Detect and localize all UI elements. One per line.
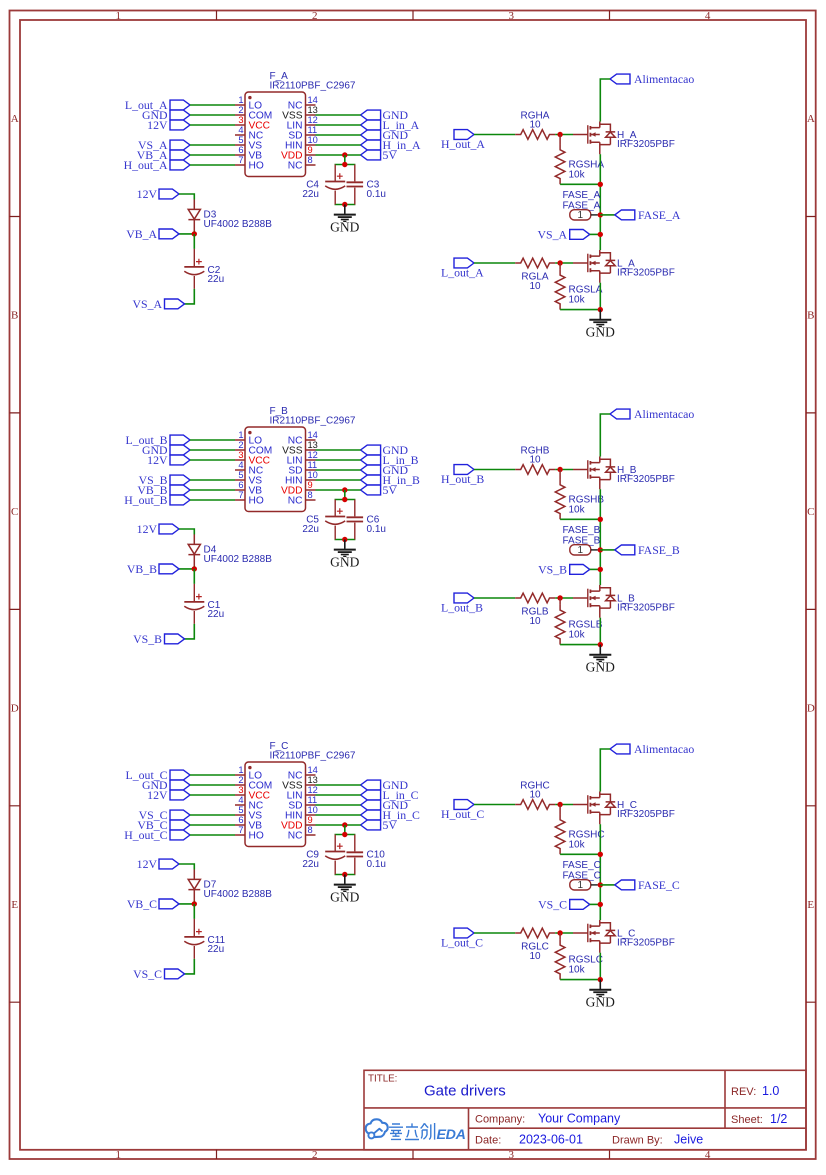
svg-text:VB_B: VB_B bbox=[127, 562, 157, 576]
port VS_B right bbox=[538, 562, 590, 576]
svg-text:8: 8 bbox=[308, 155, 313, 165]
wire bbox=[335, 155, 356, 205]
wire bbox=[190, 489, 235, 491]
svg-text:4: 4 bbox=[238, 460, 243, 470]
svg-text:Company:: Company: bbox=[475, 1114, 525, 1126]
ground bbox=[586, 310, 615, 340]
svg-text:10: 10 bbox=[308, 805, 318, 815]
svg-text:6: 6 bbox=[238, 480, 243, 490]
svg-text:Your Company: Your Company bbox=[538, 1112, 621, 1126]
svg-text:Sheet:: Sheet: bbox=[731, 1114, 763, 1126]
svg-text:12V: 12V bbox=[137, 187, 158, 201]
frame column numbers bbox=[115, 10, 710, 1161]
port VS_B bbox=[133, 632, 184, 646]
wire bbox=[190, 449, 235, 451]
wire bbox=[555, 469, 573, 471]
svg-text:VS_B: VS_B bbox=[133, 632, 162, 646]
junction bbox=[598, 212, 603, 217]
port L_out_C bbox=[441, 928, 483, 950]
svg-text:8: 8 bbox=[308, 490, 313, 500]
op-amp F_A IR2110PBF_C2967 bbox=[245, 71, 356, 177]
wire bbox=[555, 262, 573, 264]
svg-text:IRF3205PBF: IRF3205PBF bbox=[617, 937, 675, 948]
port VB_A bbox=[126, 227, 179, 241]
capacitor C10 0.1u bbox=[347, 835, 386, 875]
svg-text:10k: 10k bbox=[569, 170, 586, 181]
junction bbox=[598, 182, 603, 187]
svg-text:10: 10 bbox=[308, 470, 318, 480]
port VB_C bbox=[137, 818, 190, 832]
svg-text:1.0: 1.0 bbox=[762, 1084, 779, 1098]
port VS_B bbox=[139, 473, 190, 487]
svg-text:1: 1 bbox=[578, 210, 584, 221]
port L_in_A bbox=[361, 118, 420, 132]
svg-text:VS_C: VS_C bbox=[133, 967, 162, 981]
wire bbox=[335, 825, 356, 875]
svg-text:1: 1 bbox=[115, 1149, 121, 1161]
port 12V bbox=[147, 118, 190, 132]
svg-text:E: E bbox=[807, 899, 814, 911]
wire bbox=[316, 469, 361, 471]
junction bbox=[342, 872, 347, 877]
wire bbox=[193, 569, 195, 584]
wire bbox=[474, 262, 515, 264]
ground bbox=[330, 205, 359, 235]
svg-text:4: 4 bbox=[238, 125, 243, 135]
junction bbox=[192, 566, 197, 571]
port FASE_C bbox=[615, 878, 680, 892]
svg-text:2: 2 bbox=[312, 10, 318, 22]
svg-text:3: 3 bbox=[238, 115, 243, 125]
svg-text:10: 10 bbox=[529, 951, 541, 962]
svg-text:IRF3205PBF: IRF3205PBF bbox=[617, 267, 675, 278]
wire bbox=[590, 233, 601, 235]
section C bbox=[124, 741, 694, 1010]
svg-text:14: 14 bbox=[308, 95, 318, 105]
svg-text:8: 8 bbox=[308, 825, 313, 835]
resistor RGSLB 10k bbox=[555, 598, 602, 645]
wire bbox=[190, 814, 235, 816]
svg-text:IRF3205PBF: IRF3205PBF bbox=[617, 474, 675, 485]
capacitor C3 0.1u bbox=[347, 165, 386, 205]
netport 1 bbox=[570, 210, 598, 222]
svg-text:2023-06-01: 2023-06-01 bbox=[519, 1133, 583, 1147]
svg-text:2: 2 bbox=[238, 440, 243, 450]
date row bbox=[475, 1133, 703, 1147]
wire bbox=[560, 518, 600, 520]
ground bbox=[586, 645, 615, 675]
wire bbox=[474, 134, 515, 136]
wire bbox=[555, 932, 573, 934]
svg-text:5V: 5V bbox=[383, 148, 398, 162]
resistor RGSHB 10k bbox=[555, 470, 604, 520]
junction VDD node bbox=[342, 822, 347, 827]
wire bbox=[560, 183, 600, 185]
resistor RGHA 10 bbox=[515, 110, 555, 139]
svg-text:FASE_A: FASE_A bbox=[638, 208, 681, 222]
diode D4 UF4002 bbox=[188, 534, 272, 566]
svg-text:B: B bbox=[807, 310, 814, 322]
wire bbox=[179, 231, 194, 234]
wire bbox=[600, 749, 610, 792]
port H_out_B bbox=[441, 465, 484, 487]
svg-text:0.1u: 0.1u bbox=[367, 859, 386, 870]
wire bbox=[316, 814, 361, 816]
junction bbox=[557, 595, 562, 600]
wire bbox=[560, 644, 600, 646]
svg-text:IRF3205PBF: IRF3205PBF bbox=[617, 602, 675, 613]
op-amp F_C IR2110PBF_C2967 bbox=[245, 741, 356, 847]
port VB_B bbox=[127, 562, 179, 576]
capacitor C2 22u bbox=[184, 249, 224, 289]
wire bbox=[560, 979, 600, 981]
svg-text:12V: 12V bbox=[147, 788, 168, 802]
port GND bbox=[142, 108, 190, 122]
svg-text:5V: 5V bbox=[383, 818, 398, 832]
port GND bbox=[142, 443, 190, 457]
svg-text:H_out_B: H_out_B bbox=[124, 493, 167, 507]
svg-text:4: 4 bbox=[238, 795, 243, 805]
svg-text:5: 5 bbox=[238, 470, 243, 480]
wire bbox=[179, 529, 194, 535]
svg-text:IR2110PBF_C2967: IR2110PBF_C2967 bbox=[270, 81, 356, 92]
svg-text:EDA: EDA bbox=[437, 1127, 466, 1143]
svg-text:13: 13 bbox=[308, 775, 318, 785]
svg-text:E: E bbox=[11, 899, 18, 911]
svg-text:12V: 12V bbox=[137, 857, 158, 871]
port L_out_C bbox=[126, 768, 190, 782]
svg-text:Alimentacao: Alimentacao bbox=[634, 407, 694, 421]
wire bbox=[316, 794, 361, 796]
capacitor C5 22u bbox=[302, 500, 345, 540]
port L_out_A bbox=[125, 98, 190, 112]
svg-text:22u: 22u bbox=[208, 274, 225, 285]
port VS_C right bbox=[538, 897, 590, 911]
junction bbox=[557, 132, 562, 137]
svg-text:3: 3 bbox=[508, 1149, 514, 1161]
capacitor C11 22u bbox=[184, 919, 225, 959]
port H_out_A bbox=[124, 158, 190, 172]
port 12V bbox=[137, 857, 179, 871]
port Alimentacao bbox=[610, 742, 694, 756]
svg-text:14: 14 bbox=[308, 430, 318, 440]
wire bbox=[179, 864, 194, 870]
title block bbox=[364, 1070, 806, 1150]
svg-text:C: C bbox=[807, 506, 814, 518]
wire bbox=[185, 959, 195, 974]
svg-text:2: 2 bbox=[238, 105, 243, 115]
port Alimentacao bbox=[610, 407, 694, 421]
port 12V bbox=[147, 788, 190, 802]
netport 1 bbox=[570, 545, 598, 557]
svg-text:7: 7 bbox=[238, 155, 243, 165]
capacitor C1 22u bbox=[184, 584, 224, 624]
port FASE_B bbox=[615, 543, 680, 557]
svg-text:12: 12 bbox=[308, 785, 318, 795]
svg-text:12: 12 bbox=[308, 115, 318, 125]
port L_out_B bbox=[126, 433, 190, 447]
svg-text:L_out_C: L_out_C bbox=[441, 936, 483, 950]
svg-text:9: 9 bbox=[308, 815, 313, 825]
wire bbox=[190, 124, 235, 126]
wire bbox=[190, 154, 235, 156]
junction bbox=[557, 467, 562, 472]
svg-text:H_out_A: H_out_A bbox=[441, 137, 485, 151]
wire bbox=[190, 144, 235, 146]
wire bbox=[316, 459, 361, 461]
port GND bbox=[361, 108, 409, 122]
wire bbox=[316, 449, 361, 451]
wire bbox=[474, 597, 515, 599]
resistor RGLC 10 bbox=[515, 928, 555, 962]
port H_out_C bbox=[441, 800, 484, 822]
wire bbox=[190, 439, 235, 441]
svg-text:GND: GND bbox=[586, 325, 615, 340]
wire bbox=[555, 134, 573, 136]
junction bbox=[598, 852, 603, 857]
svg-text:H_out_B: H_out_B bbox=[441, 472, 484, 486]
svg-text:11: 11 bbox=[308, 460, 318, 470]
wire bbox=[190, 164, 235, 166]
svg-text:C: C bbox=[11, 506, 18, 518]
wire bbox=[600, 884, 615, 886]
capacitor C4 22u bbox=[302, 165, 345, 205]
svg-text:7: 7 bbox=[238, 490, 243, 500]
svg-text:6: 6 bbox=[238, 145, 243, 155]
svg-text:1: 1 bbox=[238, 430, 243, 440]
svg-text:UF4002 B288B: UF4002 B288B bbox=[204, 219, 273, 230]
svg-text:22u: 22u bbox=[208, 609, 225, 620]
wire bbox=[474, 804, 515, 806]
svg-text:VB_A: VB_A bbox=[126, 227, 157, 241]
svg-text:GND: GND bbox=[330, 890, 359, 905]
svg-text:GND: GND bbox=[330, 555, 359, 570]
transistor H_C IRF3205PBF bbox=[573, 792, 675, 825]
svg-text:FASE_B: FASE_B bbox=[563, 525, 601, 536]
svg-text:Gate drivers: Gate drivers bbox=[424, 1082, 506, 1099]
junction VDD node bbox=[342, 487, 347, 492]
wire bbox=[590, 568, 601, 570]
wire bbox=[600, 549, 615, 551]
junction bbox=[598, 642, 603, 647]
wire bbox=[335, 490, 356, 540]
transistor L_B IRF3205PBF bbox=[573, 585, 675, 618]
svg-text:5: 5 bbox=[238, 805, 243, 815]
wire bbox=[190, 479, 235, 481]
svg-text:13: 13 bbox=[308, 440, 318, 450]
svg-text:10: 10 bbox=[308, 135, 318, 145]
port VB_A bbox=[137, 148, 190, 162]
svg-text:Drawn By:: Drawn By: bbox=[612, 1135, 663, 1147]
port L_out_B bbox=[441, 593, 483, 615]
net FASE_B labels bbox=[563, 525, 601, 547]
wire bbox=[599, 283, 601, 310]
svg-text:22u: 22u bbox=[302, 859, 319, 870]
wire bbox=[185, 624, 195, 639]
wire bbox=[560, 853, 600, 855]
junction bbox=[598, 567, 603, 572]
svg-text:10: 10 bbox=[529, 790, 541, 801]
wire bbox=[316, 824, 361, 826]
wire bbox=[600, 214, 615, 216]
ground bbox=[586, 980, 615, 1010]
svg-text:Jeive: Jeive bbox=[674, 1133, 703, 1147]
resistor RGHC 10 bbox=[515, 780, 555, 809]
port 12V bbox=[137, 522, 179, 536]
svg-text:NC: NC bbox=[288, 496, 303, 507]
svg-text:D: D bbox=[11, 703, 19, 715]
IC pin numbers and names bbox=[238, 765, 318, 841]
wire bbox=[316, 134, 361, 136]
port 12V bbox=[137, 187, 179, 201]
port VS_A bbox=[138, 138, 190, 152]
wire bbox=[179, 194, 194, 200]
ground bbox=[330, 540, 359, 570]
wire bbox=[179, 901, 194, 904]
rev bbox=[731, 1084, 779, 1098]
wire bbox=[316, 784, 361, 786]
svg-text:HO: HO bbox=[249, 496, 264, 507]
junction bbox=[598, 517, 603, 522]
svg-text:D: D bbox=[807, 703, 815, 715]
junction bbox=[598, 902, 603, 907]
svg-text:10k: 10k bbox=[569, 630, 586, 641]
svg-text:REV:: REV: bbox=[731, 1086, 756, 1098]
IC left pins 1-7 bbox=[235, 105, 316, 165]
resistor RGSHA 10k bbox=[555, 135, 604, 185]
wire bbox=[600, 414, 610, 457]
svg-text:2: 2 bbox=[238, 775, 243, 785]
junction bbox=[598, 977, 603, 982]
svg-text:TITLE:: TITLE: bbox=[368, 1073, 397, 1084]
junction bbox=[192, 231, 197, 236]
logo CJK text approximation bbox=[389, 1123, 435, 1140]
transistor L_C IRF3205PBF bbox=[573, 920, 675, 953]
resistor RGLB 10 bbox=[515, 593, 555, 627]
op-amp F_B IR2110PBF_C2967 bbox=[245, 406, 356, 512]
port VS_A right bbox=[538, 227, 590, 241]
wire bbox=[190, 104, 235, 106]
svg-text:14: 14 bbox=[308, 765, 318, 775]
wire bbox=[190, 459, 235, 461]
svg-text:A: A bbox=[11, 113, 19, 125]
title text bbox=[368, 1073, 506, 1099]
port GND bbox=[361, 443, 409, 457]
port FASE_A bbox=[615, 208, 681, 222]
svg-text:VB_C: VB_C bbox=[127, 897, 157, 911]
svg-text:1: 1 bbox=[238, 95, 243, 105]
svg-text:10k: 10k bbox=[569, 505, 586, 516]
svg-text:10: 10 bbox=[529, 455, 541, 466]
svg-text:9: 9 bbox=[308, 145, 313, 155]
transistor L_A IRF3205PBF bbox=[573, 250, 675, 283]
svg-text:3: 3 bbox=[508, 10, 514, 22]
svg-text:IR2110PBF_C2967: IR2110PBF_C2967 bbox=[270, 751, 356, 762]
svg-text:L_out_A: L_out_A bbox=[441, 266, 484, 280]
svg-text:GND: GND bbox=[586, 995, 615, 1010]
junction bbox=[342, 537, 347, 542]
svg-text:0.1u: 0.1u bbox=[367, 189, 386, 200]
port VS_C bbox=[133, 967, 184, 981]
svg-text:IRF3205PBF: IRF3205PBF bbox=[617, 139, 675, 150]
ground bbox=[330, 875, 359, 905]
svg-text:1: 1 bbox=[115, 10, 121, 22]
junction bbox=[192, 901, 197, 906]
port H_out_B bbox=[124, 493, 190, 507]
svg-text:13: 13 bbox=[308, 105, 318, 115]
wire bbox=[193, 234, 195, 249]
junction bbox=[557, 802, 562, 807]
port 5V bbox=[361, 483, 398, 497]
svg-text:10: 10 bbox=[529, 120, 541, 131]
junction VDD node bbox=[342, 152, 347, 157]
port 5V bbox=[361, 818, 398, 832]
svg-text:10k: 10k bbox=[569, 965, 586, 976]
svg-text:HO: HO bbox=[249, 161, 264, 172]
wire bbox=[599, 618, 601, 645]
capacitor C6 0.1u bbox=[347, 500, 386, 540]
wire bbox=[599, 953, 601, 980]
wire bbox=[555, 804, 573, 806]
svg-text:12V: 12V bbox=[147, 118, 168, 132]
svg-text:NC: NC bbox=[288, 161, 303, 172]
wire bbox=[190, 784, 235, 786]
svg-text:Alimentacao: Alimentacao bbox=[634, 72, 694, 86]
svg-text:VS_A: VS_A bbox=[538, 227, 568, 241]
svg-text:12V: 12V bbox=[137, 522, 158, 536]
svg-text:FASE_A: FASE_A bbox=[563, 190, 601, 201]
junction bbox=[342, 202, 347, 207]
svg-text:B: B bbox=[11, 310, 18, 322]
port VB_C bbox=[127, 897, 179, 911]
diode D7 UF4002 bbox=[188, 869, 272, 901]
junction bbox=[598, 232, 603, 237]
IC pin numbers and names bbox=[238, 95, 318, 171]
diode D3 UF4002 bbox=[188, 199, 272, 231]
svg-text:HO: HO bbox=[249, 831, 264, 842]
wire bbox=[190, 114, 235, 116]
port VS_C bbox=[139, 808, 190, 822]
svg-text:5V: 5V bbox=[383, 483, 398, 497]
junction bbox=[342, 497, 347, 502]
junction bbox=[598, 882, 603, 887]
transistor H_A IRF3205PBF bbox=[573, 122, 675, 155]
port H_out_A bbox=[441, 130, 485, 152]
wire bbox=[193, 904, 195, 919]
svg-text:11: 11 bbox=[308, 795, 318, 805]
wire bbox=[316, 154, 361, 156]
wire bbox=[316, 114, 361, 116]
wire bbox=[190, 824, 235, 826]
wire source H to drain L bbox=[599, 489, 601, 585]
junction bbox=[598, 307, 603, 312]
svg-text:10k: 10k bbox=[569, 295, 586, 306]
net FASE_C labels bbox=[563, 860, 601, 882]
IC left pins 1-7 bbox=[235, 775, 316, 835]
resistor RGLA 10 bbox=[515, 258, 555, 292]
svg-text:Date:: Date: bbox=[475, 1135, 501, 1147]
section B bbox=[124, 406, 694, 675]
wire bbox=[190, 794, 235, 796]
svg-text:FASE_C: FASE_C bbox=[563, 860, 601, 871]
transistor H_B IRF3205PBF bbox=[573, 457, 675, 490]
port H_in_B bbox=[361, 473, 420, 487]
svg-text:1: 1 bbox=[238, 765, 243, 775]
wire bbox=[190, 774, 235, 776]
net FASE_A labels bbox=[563, 190, 601, 212]
svg-text:11: 11 bbox=[308, 125, 318, 135]
svg-text:FASE_B: FASE_B bbox=[638, 543, 680, 557]
